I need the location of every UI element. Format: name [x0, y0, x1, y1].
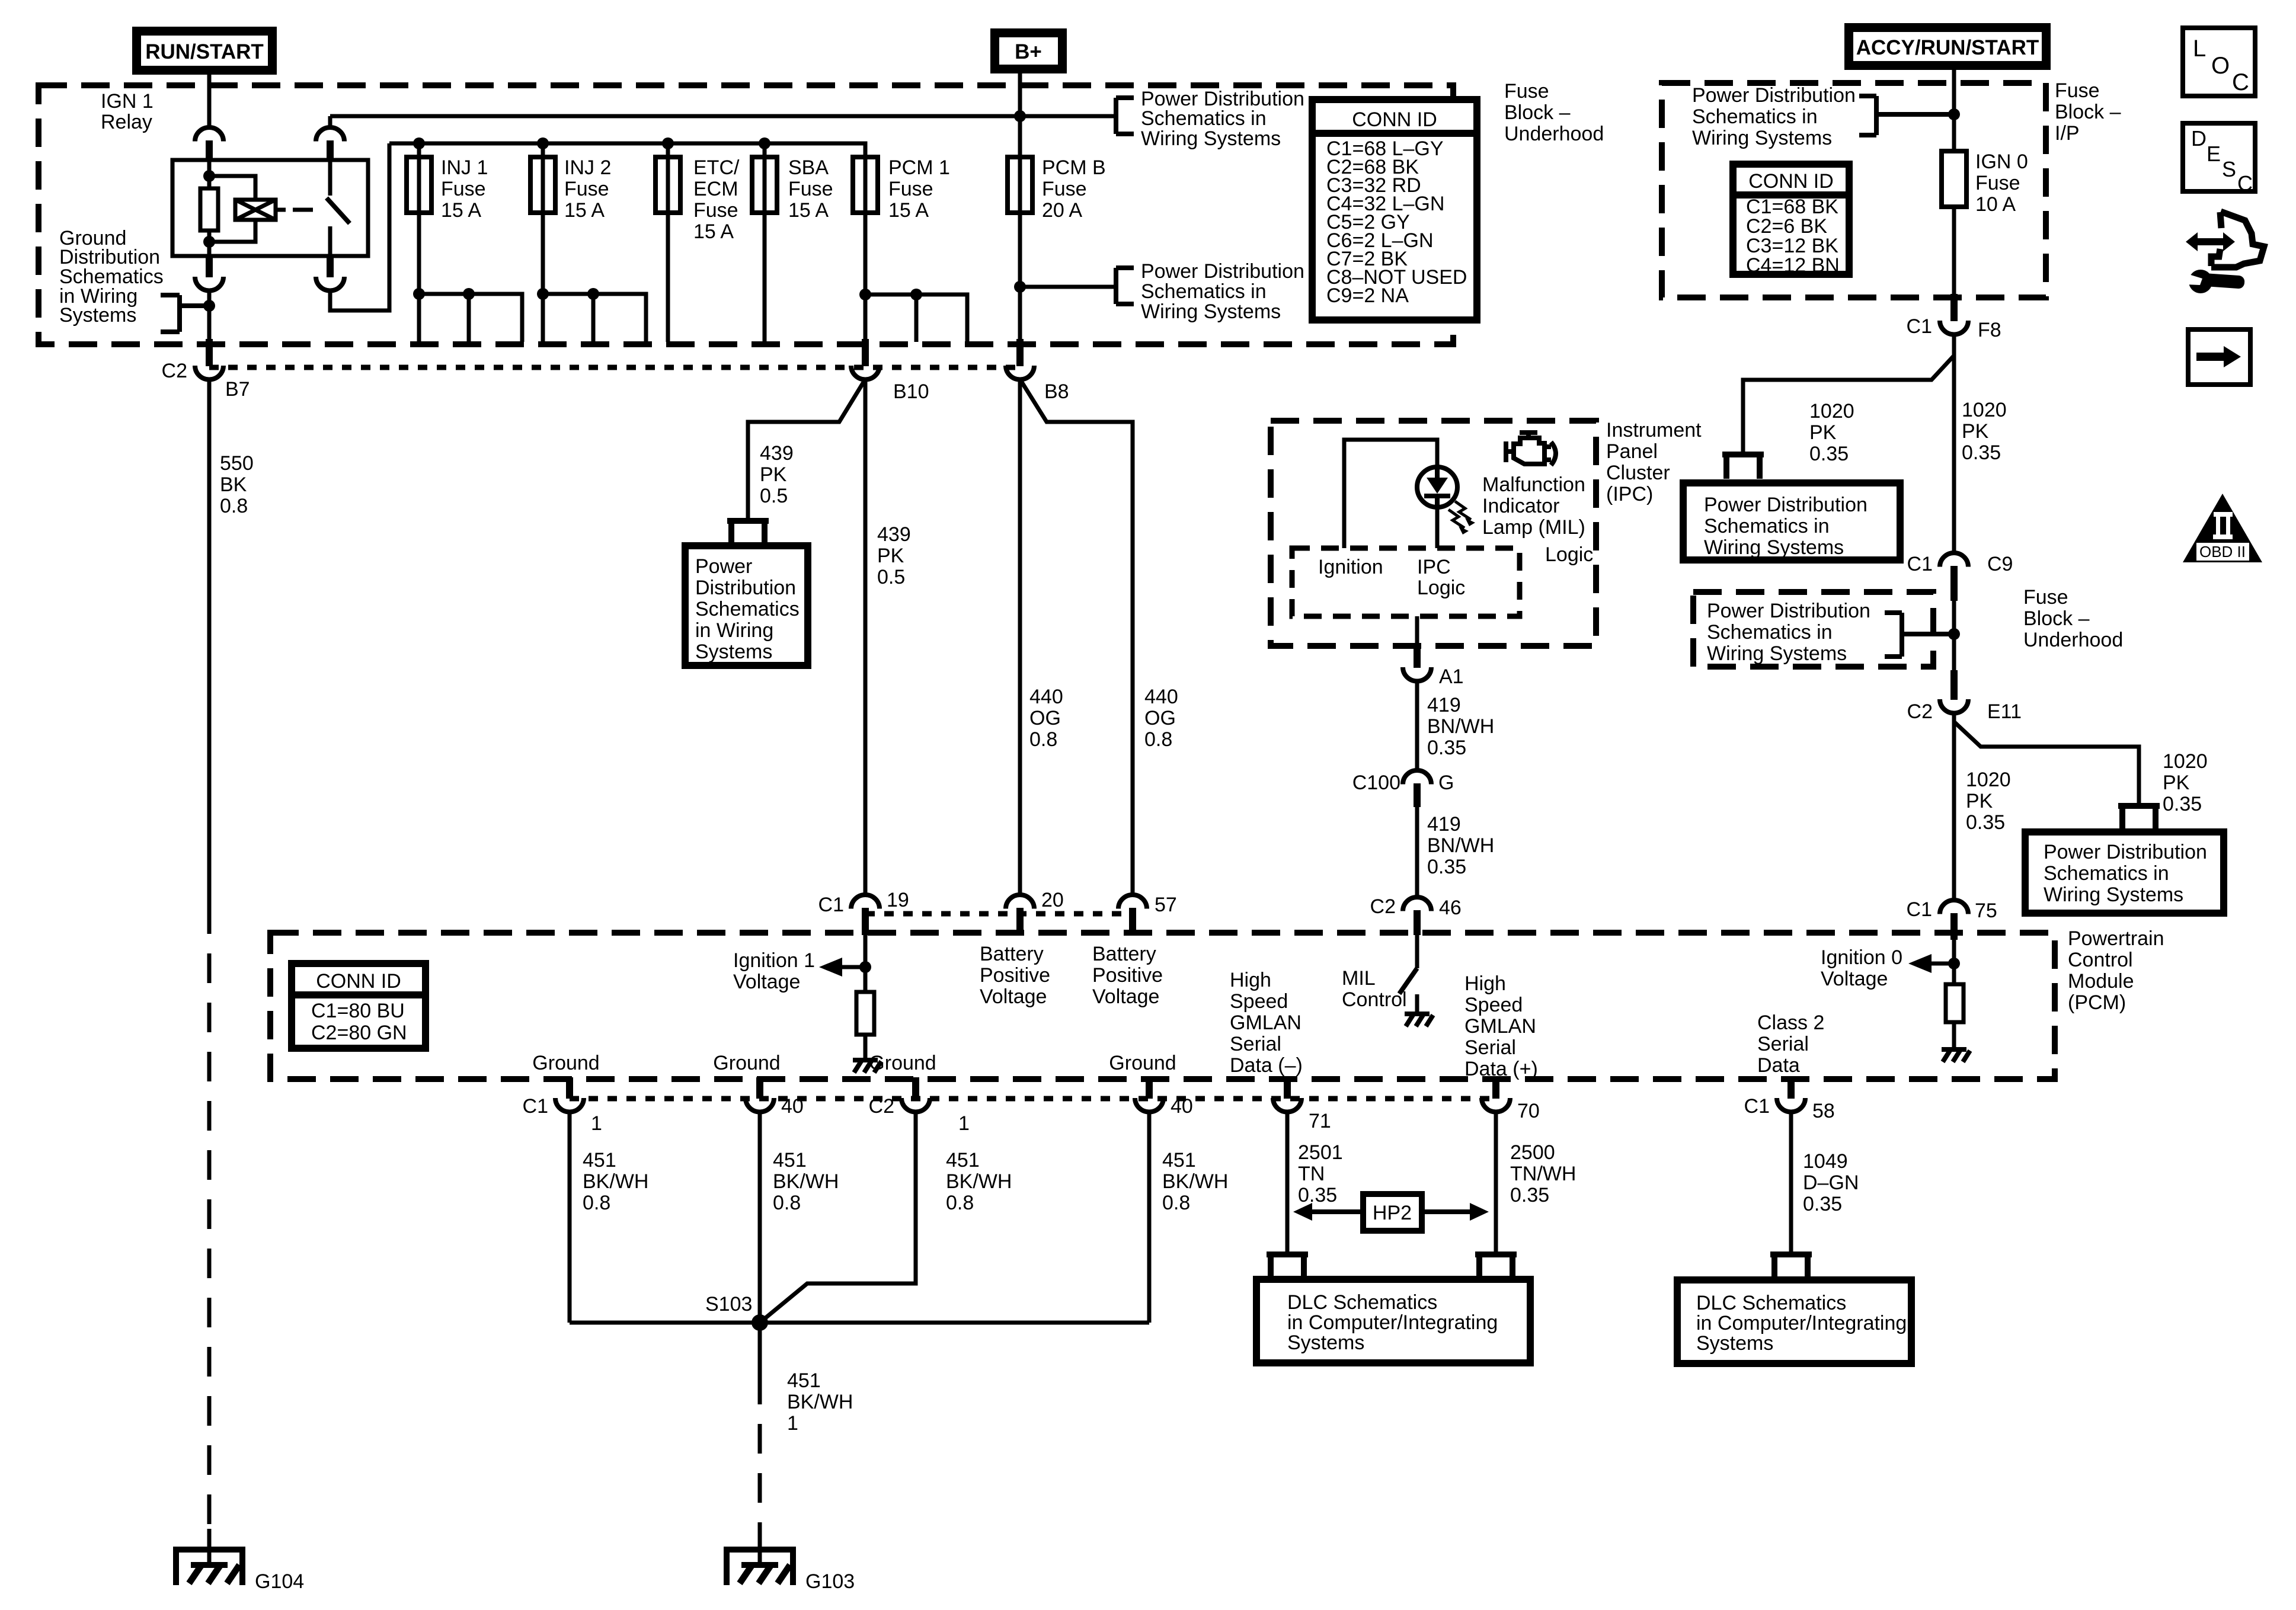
ground ignition1	[853, 1060, 881, 1073]
CONN ID table underhood	[1312, 100, 1477, 320]
svg-text:BK/WH: BK/WH	[583, 1170, 648, 1193]
label 440 OG 0.8 left	[1029, 686, 1063, 751]
svg-text:BK/WH: BK/WH	[787, 1391, 853, 1413]
svg-text:C2: C2	[869, 1095, 894, 1118]
svg-text:PK: PK	[2163, 772, 2190, 794]
svg-text:0.35: 0.35	[1298, 1184, 1337, 1206]
CONN ID table IP	[1733, 164, 1849, 277]
wire B10 down 439	[864, 379, 868, 895]
node ignition0	[1948, 958, 1960, 969]
wire MIL control switch feed	[1415, 935, 1419, 968]
label Power Distribution Schematics in Wiring Systems lower	[1141, 260, 1304, 323]
label Fuse Block - Underhood right	[2023, 586, 2123, 651]
wire B+ feed bus	[330, 114, 1116, 119]
plug to power distribution box f8	[1722, 454, 1764, 479]
svg-text:DLC Schematics: DLC Schematics	[1287, 1291, 1437, 1314]
svg-text:BK/WH: BK/WH	[773, 1170, 839, 1193]
wire LED to logic	[1435, 507, 1440, 548]
svg-text:Ground: Ground	[713, 1052, 780, 1074]
engine icon	[1506, 433, 1556, 465]
label Fuse Block - Underhood	[1504, 80, 1604, 145]
fuse PCM B 20A	[1008, 157, 1032, 213]
svg-text:Fuse: Fuse	[1975, 172, 2020, 194]
connector blade relay 30	[327, 256, 334, 277]
label 1020 PK 0.35 f8 right	[1962, 399, 2007, 464]
label 419 BN/WH 0.35 lower	[1427, 813, 1494, 878]
svg-text:0.8: 0.8	[583, 1192, 610, 1214]
svg-text:Power Distribution: Power Distribution	[1692, 84, 1856, 107]
svg-text:20: 20	[1041, 889, 1064, 911]
relay switch contact top	[328, 161, 332, 196]
svg-text:RUN/START: RUN/START	[145, 40, 264, 63]
svg-text:0.35: 0.35	[1966, 811, 2005, 834]
bracket accy power distribution	[1859, 96, 1954, 135]
tag ACCY/RUN/START	[1844, 23, 2051, 70]
label 451 BK/WH 0.8 a	[583, 1149, 648, 1214]
svg-text:46: 46	[1439, 897, 1462, 919]
wire E11 down 1020	[1952, 713, 1956, 900]
svg-text:C2: C2	[1907, 700, 1933, 723]
connector blade C2-1	[912, 1077, 919, 1099]
svg-text:Data: Data	[1757, 1054, 1800, 1077]
wire S103 to G103	[758, 1323, 762, 1375]
svg-text:40: 40	[781, 1095, 804, 1118]
svg-text:(IPC): (IPC)	[1606, 483, 1653, 505]
terminal blade into relay coil	[206, 140, 213, 161]
svg-text:IGN 1: IGN 1	[101, 90, 154, 113]
connector cup relay 86	[195, 277, 223, 291]
svg-text:B8: B8	[1044, 380, 1069, 403]
svg-text:Wiring Systems: Wiring Systems	[1141, 127, 1281, 150]
connector cup C2-1	[901, 1098, 930, 1112]
svg-text:440: 440	[1144, 686, 1178, 708]
label 1049 D-GN 0.35	[1803, 1150, 1859, 1215]
svg-text:C9=2 NA: C9=2 NA	[1326, 284, 1409, 307]
svg-text:TN: TN	[1298, 1163, 1325, 1185]
label IGN 0 Fuse 10 A	[1975, 151, 2028, 216]
svg-text:G: G	[1438, 772, 1454, 794]
wire resistor1 to ground	[864, 1035, 868, 1060]
svg-text:CONN ID: CONN ID	[1748, 170, 1834, 193]
svg-text:Control: Control	[2068, 949, 2133, 971]
wire F8 down 1020	[1952, 334, 1956, 553]
node PCM1 bus a	[859, 289, 871, 300]
connector dome C1-19	[851, 895, 880, 909]
node INJ2 bus b	[587, 288, 599, 300]
wire 451 b	[758, 1112, 762, 1323]
svg-text:0.8: 0.8	[1144, 728, 1172, 751]
connector blade relay 86	[206, 256, 213, 277]
svg-text:Voltage: Voltage	[980, 985, 1047, 1008]
connector cup 71	[1273, 1098, 1302, 1112]
wire IPC logic output	[1415, 616, 1419, 646]
connector blade C1-1	[566, 1077, 573, 1099]
svg-text:E: E	[2207, 142, 2221, 166]
svg-text:OG: OG	[1144, 707, 1176, 729]
svg-text:OG: OG	[1029, 707, 1061, 729]
svg-text:419: 419	[1427, 813, 1461, 836]
label INJ 1 Fuse 15 A	[441, 156, 488, 222]
svg-text:Serial: Serial	[1464, 1036, 1516, 1059]
svg-text:MIL: MIL	[1342, 967, 1376, 990]
connector blade 40a	[756, 1077, 763, 1099]
svg-text:BK/WH: BK/WH	[1162, 1170, 1228, 1193]
label 439 PK 0.5 right	[877, 523, 911, 588]
label Class 2 Serial Data	[1757, 1012, 1824, 1077]
svg-text:71: 71	[1309, 1110, 1331, 1132]
box Power Distribution Schematics in Wiring Systems e11	[2025, 832, 2224, 913]
svg-text:Block –: Block –	[2055, 101, 2121, 123]
relay IGN1 box	[172, 160, 368, 256]
svg-text:Fuse: Fuse	[1042, 178, 1087, 200]
wire F8 left branch 1020	[1743, 356, 1954, 452]
svg-text:1: 1	[958, 1112, 970, 1135]
svg-text:C1=80 BU: C1=80 BU	[311, 1000, 405, 1022]
svg-text:Malfunction: Malfunction	[1482, 473, 1585, 496]
svg-text:Fuse: Fuse	[693, 199, 738, 222]
fuse IGN0 10A	[1942, 151, 1966, 207]
arrow ignition0	[1908, 954, 1932, 973]
svg-text:BN/WH: BN/WH	[1427, 834, 1494, 857]
label High Speed GMLAN Serial Data minus	[1230, 969, 1303, 1077]
bracket to ground distribution	[161, 295, 209, 332]
svg-text:C1: C1	[1907, 898, 1932, 921]
wire RUN/START to relay	[207, 75, 212, 127]
svg-text:TN/WH: TN/WH	[1510, 1163, 1576, 1185]
icon LOC box	[2183, 28, 2255, 96]
svg-text:O: O	[2211, 53, 2230, 79]
label 451 BK/WH 0.8 c	[946, 1149, 1012, 1214]
label Fuse Block - I/P	[2055, 79, 2121, 145]
svg-text:Positive: Positive	[1092, 964, 1163, 987]
svg-text:ACCY/RUN/START: ACCY/RUN/START	[1856, 36, 2039, 59]
label Battery Positive Voltage 20	[980, 943, 1050, 1008]
node S103	[752, 1314, 768, 1331]
wire relay output to fuse bus riser	[330, 143, 389, 311]
svg-text:0.35: 0.35	[1510, 1184, 1549, 1206]
wire SBA fuse drop	[763, 143, 767, 342]
wire ignition0 tap	[1929, 940, 1954, 984]
svg-text:F8: F8	[1978, 319, 2001, 341]
label 2500 TN/WH 0.35	[1510, 1141, 1576, 1206]
svg-text:DLC Schematics: DLC Schematics	[1696, 1292, 1846, 1314]
svg-text:C9: C9	[1987, 553, 2013, 575]
svg-text:C1: C1	[818, 894, 844, 916]
svg-text:Schematics in: Schematics in	[1141, 280, 1267, 303]
relay coil resistor	[200, 188, 218, 231]
svg-text:INJ 2: INJ 2	[564, 156, 611, 179]
svg-text:(PCM): (PCM)	[2068, 991, 2126, 1014]
CONN ID table PCM	[292, 964, 426, 1048]
wire INJ1 fuse drop	[417, 143, 421, 294]
svg-text:C4=12 BN: C4=12 BN	[1746, 254, 1840, 277]
svg-text:Systems: Systems	[1696, 1332, 1773, 1355]
label Power Distribution Schematics in Wiring Systems ub2	[1707, 600, 1870, 665]
wire ACCY feed	[1952, 70, 1956, 151]
svg-text:Systems: Systems	[59, 304, 136, 327]
wire dashed to G103	[758, 1375, 762, 1539]
svg-text:Ignition 1: Ignition 1	[733, 949, 815, 972]
label 419 BN/WH 0.35 upper	[1427, 694, 1494, 759]
label MIL Control	[1342, 967, 1407, 1011]
connector blade 20	[1016, 908, 1024, 935]
svg-text:Power: Power	[695, 555, 752, 578]
svg-text:D: D	[2191, 126, 2207, 151]
connector cup B8	[1006, 366, 1034, 380]
label 451 BK/WH 0.8 d	[1162, 1149, 1228, 1214]
connector blade 40b	[1146, 1077, 1153, 1099]
ground MIL control	[1405, 1014, 1433, 1026]
box DLC Schematics 2	[1677, 1280, 1911, 1363]
fuse INJ1 15A	[407, 157, 431, 213]
wire G104 stub	[207, 1529, 212, 1566]
connector blade 57	[1129, 908, 1136, 935]
connector dome 20	[1006, 895, 1034, 909]
svg-text:0.35: 0.35	[1803, 1193, 1842, 1215]
IPC logic inner dashed box	[1292, 548, 1520, 616]
svg-text:Underhood: Underhood	[1504, 123, 1604, 145]
svg-text:75: 75	[1975, 900, 1997, 922]
svg-text:Power Distribution: Power Distribution	[2044, 841, 2207, 863]
node bus INJ1	[413, 137, 425, 149]
svg-text:G103: G103	[805, 1570, 855, 1593]
svg-text:15 A: 15 A	[888, 199, 929, 222]
bracket power distribution lower	[1116, 268, 1134, 304]
svg-text:B+: B+	[1015, 40, 1042, 63]
svg-text:GMLAN: GMLAN	[1230, 1012, 1302, 1034]
svg-text:Wiring Systems: Wiring Systems	[1692, 127, 1832, 149]
box Power Distribution Schematics in Wiring Systems f8	[1683, 483, 1900, 560]
svg-text:SBA: SBA	[788, 156, 829, 179]
svg-text:B10: B10	[893, 380, 929, 403]
svg-text:Data (–): Data (–)	[1230, 1054, 1303, 1077]
wire B8 down 440	[1018, 379, 1022, 895]
label 1020 PK 0.35 e11 straight	[1966, 769, 2011, 834]
svg-text:Distribution: Distribution	[695, 577, 796, 599]
node INJ2 bus a	[537, 288, 549, 300]
wire INJ1 output bus	[419, 294, 522, 342]
svg-text:58: 58	[1812, 1100, 1835, 1122]
svg-text:Module: Module	[2068, 970, 2134, 993]
label Ground Distribution Schematics in Wiring Systems	[59, 227, 164, 327]
node PCM1 bus b	[910, 289, 922, 300]
svg-text:Battery: Battery	[980, 943, 1044, 965]
svg-text:Schematics in: Schematics in	[1707, 621, 1833, 644]
svg-text:HP2: HP2	[1373, 1202, 1412, 1224]
node PCMB output junction	[1014, 281, 1026, 293]
bracket power distribution upper	[1116, 98, 1134, 134]
wire 451 a	[568, 1112, 572, 1323]
svg-text:L: L	[2193, 36, 2206, 62]
PCM dashed box	[270, 933, 2055, 1079]
terminal blade relay 87	[327, 140, 334, 161]
svg-text:Fuse: Fuse	[1504, 80, 1549, 103]
svg-text:Ignition 0: Ignition 0	[1821, 946, 1902, 969]
label ETC/ECM Fuse 15 A	[693, 156, 740, 243]
ground G104	[176, 1550, 242, 1585]
svg-text:Fuse: Fuse	[788, 178, 833, 200]
svg-text:G104: G104	[255, 1570, 304, 1593]
svg-text:Serial: Serial	[1230, 1033, 1281, 1055]
svg-text:C1: C1	[523, 1095, 548, 1118]
svg-text:Voltage: Voltage	[733, 971, 800, 993]
svg-text:Fuse: Fuse	[888, 178, 933, 200]
wire E11 right branch 1020	[1954, 722, 2139, 803]
wire 419 lower	[1415, 807, 1419, 897]
connector blade C9	[1950, 566, 1958, 601]
dotted connector row line bottom	[570, 1096, 1496, 1102]
dotted connector row line PCM top	[865, 911, 1133, 917]
fuse SBA 15A	[752, 157, 777, 213]
svg-text:Power Distribution: Power Distribution	[1707, 600, 1870, 622]
svg-text:0.8: 0.8	[773, 1192, 801, 1214]
svg-text:PK: PK	[1966, 790, 1993, 812]
svg-text:Systems: Systems	[1287, 1331, 1364, 1354]
label INJ 2 Fuse 15 A	[564, 156, 611, 222]
light rays	[1448, 501, 1471, 528]
label 550 BK 0.8	[220, 452, 254, 517]
wire PCM1 fuse drop	[864, 157, 868, 339]
solenoid to switch dashed link	[276, 208, 286, 212]
connector cup B10	[851, 366, 880, 380]
svg-text:C: C	[2232, 69, 2249, 95]
connector dome C2-46	[1403, 897, 1431, 911]
svg-text:PCM B: PCM B	[1042, 156, 1106, 179]
wire INJ2 fuse drop	[541, 143, 545, 294]
svg-text:Block –: Block –	[2023, 607, 2090, 630]
node INJ1 bus a	[413, 288, 425, 300]
svg-text:0.35: 0.35	[2163, 793, 2202, 815]
svg-text:C1: C1	[1907, 553, 1933, 575]
svg-text:C1: C1	[1907, 315, 1932, 338]
svg-text:C: C	[2237, 171, 2253, 196]
svg-text:1: 1	[591, 1112, 602, 1135]
svg-text:High: High	[1230, 969, 1271, 991]
connector dome C1-75	[1940, 900, 1968, 914]
svg-text:S103: S103	[705, 1293, 752, 1315]
plug to power distribution box e11	[2118, 806, 2160, 830]
svg-text:2500: 2500	[1510, 1141, 1555, 1164]
plug to DLC box 70	[1475, 1254, 1517, 1279]
svg-text:20 A: 20 A	[1042, 199, 1082, 222]
resistor ignition0	[1946, 984, 1964, 1022]
connector cup F8	[1940, 321, 1968, 335]
icon OBD II triangle	[2183, 494, 2262, 562]
svg-text:0.5: 0.5	[760, 485, 788, 507]
node accy junction	[1948, 108, 1960, 120]
svg-text:INJ 1: INJ 1	[441, 156, 488, 179]
box DLC Schematics 1	[1256, 1279, 1530, 1363]
svg-text:0.8: 0.8	[946, 1192, 974, 1214]
svg-text:Systems: Systems	[695, 641, 772, 663]
wire 451 c	[760, 1112, 916, 1323]
wire relay 87 to fuse bus	[328, 116, 332, 127]
svg-text:Positive: Positive	[980, 964, 1050, 987]
fuse block underhood dashed box	[39, 85, 1453, 344]
wire IGN0 fuse out	[1952, 207, 1956, 296]
node bus SBA	[759, 137, 770, 149]
svg-text:0.8: 0.8	[1162, 1192, 1190, 1214]
svg-text:High: High	[1464, 972, 1506, 995]
connector blade 70	[1492, 1077, 1499, 1099]
label 440 OG 0.8 right	[1144, 686, 1178, 751]
svg-text:Ground: Ground	[1109, 1052, 1176, 1074]
svg-text:CONN ID: CONN ID	[316, 970, 401, 993]
svg-text:Ground: Ground	[869, 1052, 936, 1074]
svg-text:0.5: 0.5	[877, 566, 905, 588]
svg-text:BK/WH: BK/WH	[946, 1170, 1012, 1193]
connector blade B8	[1016, 339, 1024, 366]
wire ignition1 tap	[840, 935, 865, 992]
connector cup 40b	[1135, 1098, 1163, 1112]
svg-text:439: 439	[877, 523, 911, 546]
resistor ignition1	[856, 992, 874, 1035]
svg-text:Ground: Ground	[532, 1052, 599, 1074]
svg-text:Cluster: Cluster	[1606, 462, 1670, 484]
svg-text:C2=80 GN: C2=80 GN	[311, 1022, 407, 1044]
relay switch contact bottom	[328, 226, 332, 256]
svg-text:OBD II: OBD II	[2199, 543, 2246, 561]
IPC dashed box	[1271, 421, 1596, 646]
svg-text:ETC/: ETC/	[693, 156, 740, 179]
node INJ1 bus b	[463, 288, 475, 300]
wire coil branch	[209, 161, 255, 256]
label PCM B Fuse 20 A	[1042, 156, 1106, 222]
svg-text:451: 451	[787, 1369, 821, 1392]
plug to DLC box 58	[1770, 1254, 1812, 1279]
svg-text:19: 19	[887, 889, 909, 911]
connector cup relay 30	[316, 277, 344, 291]
label Power Distribution Schematics in Wiring Systems upper	[1141, 88, 1304, 150]
svg-text:1049: 1049	[1803, 1150, 1848, 1173]
wire C9 to E11	[1952, 601, 1956, 670]
wire 1049	[1789, 1112, 1793, 1253]
svg-text:0.35: 0.35	[1427, 737, 1466, 759]
connector blade 46	[1414, 910, 1421, 935]
svg-text:550: 550	[220, 452, 254, 475]
svg-text:ECM: ECM	[693, 178, 738, 200]
node ignition1	[859, 961, 871, 973]
label Instrument Panel Cluster IPC	[1606, 419, 1702, 505]
tag RUN/START	[132, 27, 277, 75]
connector cup 40a	[746, 1098, 774, 1112]
box Power Distribution Schematics in Wiring Systems	[685, 546, 808, 665]
svg-text:Schematics in: Schematics in	[2044, 862, 2169, 885]
wire relay ground lead	[207, 290, 212, 339]
connector blade C100	[1414, 783, 1421, 807]
svg-text:439: 439	[760, 442, 794, 465]
svg-text:0.35: 0.35	[1962, 441, 2001, 464]
svg-text:1020: 1020	[1966, 769, 2011, 791]
wire PCM1 output bus	[865, 295, 967, 342]
svg-text:Indicator: Indicator	[1482, 495, 1559, 517]
label 451 BK/WH 0.8 b	[773, 1149, 839, 1214]
fuse block underhood2 dashed box	[1693, 592, 1933, 667]
svg-text:A1: A1	[1439, 665, 1464, 688]
fuse block IP dashed box	[1662, 83, 2046, 297]
svg-text:S: S	[2222, 157, 2236, 181]
connector cup A1	[1403, 667, 1431, 681]
label Malfunction Indicator Lamp MIL	[1482, 473, 1585, 539]
lamp MIL LED	[1417, 467, 1457, 507]
wire resistor0 to ground	[1952, 1022, 1956, 1049]
wire B+ to PCMB fuse	[1018, 73, 1022, 339]
wire MIL loop	[1344, 440, 1437, 548]
svg-text:10 A: 10 A	[1975, 193, 2016, 216]
arrow ignition1	[819, 958, 842, 977]
svg-text:C2: C2	[162, 360, 187, 382]
svg-text:CONN ID: CONN ID	[1352, 108, 1437, 131]
